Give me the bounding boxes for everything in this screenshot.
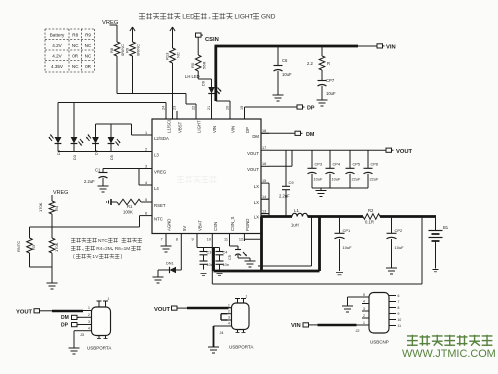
svg-text:10uF: 10uF bbox=[326, 91, 336, 96]
note: NTC option text bbox=[71, 238, 142, 260]
svg-text:USBPORTA: USBPORTA bbox=[87, 346, 111, 351]
svg-text:NTC: NTC bbox=[98, 238, 108, 244]
power arrow above R13 bbox=[170, 27, 175, 35]
LED D5 bbox=[108, 137, 120, 160]
svg-text:DP: DP bbox=[61, 323, 69, 329]
svg-text:CP7: CP7 bbox=[326, 78, 335, 83]
svg-text:L3: L3 bbox=[154, 152, 159, 157]
svg-text:CSIN: CSIN bbox=[205, 37, 219, 43]
svg-text:CSN: CSN bbox=[213, 222, 218, 231]
svg-text:19: 19 bbox=[240, 106, 244, 110]
ground below DN1 bbox=[153, 277, 164, 283]
ground below CP2 bbox=[386, 268, 397, 274]
svg-text:NC: NC bbox=[85, 43, 92, 48]
svg-text:R9: R9 bbox=[125, 47, 130, 53]
svg-text:10uF: 10uF bbox=[314, 177, 323, 182]
svg-text:L1: L1 bbox=[294, 208, 299, 213]
connector J2 USBCNP body bbox=[356, 293, 390, 345]
svg-text:6: 6 bbox=[398, 294, 400, 298]
svg-text:LIGHT: LIGHT bbox=[197, 120, 202, 133]
connector VOUT (right) bbox=[386, 148, 413, 155]
connector DP (bottom) bbox=[61, 323, 88, 329]
svg-text:D6: D6 bbox=[202, 81, 206, 86]
capacitor CP3 bbox=[308, 150, 323, 188]
capacitor C4 bbox=[216, 248, 229, 270]
pin 8 5V bbox=[176, 226, 187, 242]
resistor R8 bbox=[109, 25, 125, 56]
wire pin11 to C5 bbox=[230, 241, 239, 249]
svg-text:VIN: VIN bbox=[291, 323, 301, 329]
svg-text:4.35V: 4.35V bbox=[51, 64, 64, 69]
svg-text:2: 2 bbox=[228, 309, 230, 313]
svg-text:YOUT: YOUT bbox=[16, 310, 33, 316]
ground below pin7 bbox=[161, 241, 172, 252]
svg-text:9: 9 bbox=[192, 238, 194, 242]
svg-text:J3: J3 bbox=[80, 333, 84, 337]
svg-text:C6: C6 bbox=[282, 58, 288, 63]
ground below C1 bbox=[98, 186, 109, 192]
wire thick bus vertical at 319.5 bbox=[318, 217, 321, 272]
pin 14 LX bbox=[254, 195, 269, 205]
wire LED rail top (D4/D3 anodes to pin24) bbox=[58, 103, 166, 138]
svg-text:2.2: 2.2 bbox=[307, 61, 313, 66]
capacitor C5 bbox=[228, 250, 247, 261]
svg-text:C5: C5 bbox=[228, 255, 232, 260]
wire pin6 NTC node bbox=[30, 216, 145, 227]
svg-text:22uF: 22uF bbox=[352, 177, 361, 182]
svg-text:3: 3 bbox=[88, 320, 90, 324]
capacitor CP4 bbox=[326, 150, 341, 188]
pin 3 J2 bbox=[362, 307, 369, 311]
wire cap bottoms join bbox=[312, 187, 368, 189]
svg-text:2: 2 bbox=[363, 314, 365, 318]
svg-text:NC: NC bbox=[72, 43, 79, 48]
svg-text:R2: R2 bbox=[368, 208, 374, 213]
svg-text:DM: DM bbox=[306, 132, 315, 138]
ground below J3 bbox=[69, 348, 80, 354]
wire VOUT to J4 pin1 (thick) bbox=[179, 307, 232, 309]
svg-text:R4: R4 bbox=[54, 205, 59, 211]
svg-text:23: 23 bbox=[173, 106, 177, 110]
connector DM bbox=[295, 131, 315, 138]
resistor R13 bbox=[165, 35, 181, 63]
svg-text:C1: C1 bbox=[95, 168, 101, 173]
pin 22 LIGHT bbox=[192, 106, 202, 133]
wire R8 bottom to rail bbox=[116, 56, 118, 94]
svg-text:B1: B1 bbox=[443, 225, 449, 230]
svg-text:USBCNP: USBCNP bbox=[370, 340, 389, 345]
svg-text:D3: D3 bbox=[73, 155, 77, 160]
svg-text:2: 2 bbox=[145, 147, 147, 151]
svg-text:5V: 5V bbox=[182, 226, 187, 231]
watermark line 1 bbox=[407, 335, 492, 346]
pin 5 J2 bbox=[362, 293, 369, 297]
svg-text:DM: DM bbox=[252, 134, 259, 139]
svg-text:DP: DP bbox=[245, 127, 250, 133]
svg-text:VIN: VIN bbox=[231, 126, 236, 133]
wire J4 pins 2-3 loop bbox=[221, 314, 228, 320]
svg-text:DN1: DN1 bbox=[166, 262, 174, 266]
svg-text:R4=2M: R4=2M bbox=[96, 246, 112, 252]
watermark line 2 bbox=[402, 348, 496, 360]
svg-text:R3: R3 bbox=[31, 244, 36, 250]
pin 2 J2 bbox=[362, 314, 369, 318]
svg-text:1: 1 bbox=[363, 321, 365, 325]
wire pin9 to cap rail bbox=[197, 241, 220, 248]
svg-text:17: 17 bbox=[262, 146, 266, 150]
pin 10 CSN bbox=[207, 222, 218, 242]
net label VREG for R4 bbox=[53, 190, 68, 196]
svg-text:Battery: Battery bbox=[50, 33, 65, 38]
inductor L1 bbox=[291, 208, 308, 228]
wire thick bus vertical at 261.5 bbox=[260, 217, 263, 272]
connector DP bbox=[297, 105, 315, 112]
svg-text:21: 21 bbox=[207, 106, 211, 110]
wire pin18 to DM connector bbox=[261, 132, 295, 134]
pin 1 J2 bbox=[362, 321, 369, 325]
wire pin8 to DN1 bbox=[176, 241, 181, 270]
svg-text:22uF: 22uF bbox=[370, 177, 379, 182]
svg-text:J2: J2 bbox=[356, 329, 360, 333]
LED D6 bbox=[202, 81, 222, 94]
svg-text:AGND: AGND bbox=[167, 219, 172, 231]
svg-text:R9: R9 bbox=[85, 33, 91, 38]
svg-text:10uF: 10uF bbox=[332, 177, 341, 182]
svg-text:18: 18 bbox=[262, 129, 266, 133]
connector YOUT bbox=[16, 309, 42, 316]
connector J4 USBPORTA body bbox=[220, 303, 254, 350]
svg-text:16: 16 bbox=[262, 162, 266, 166]
svg-text:0R: 0R bbox=[85, 64, 92, 69]
svg-text:4.2V: 4.2V bbox=[52, 43, 62, 48]
pin 23 VBST bbox=[173, 106, 183, 133]
pin 10 J2 bbox=[389, 318, 401, 322]
svg-text:DP: DP bbox=[307, 106, 315, 112]
connector VOUT (bottom) bbox=[154, 306, 179, 313]
ground tick below CP1 bbox=[336, 273, 343, 275]
wire sense inner loop bbox=[258, 217, 312, 266]
table: battery option R8/R9 bbox=[45, 29, 95, 72]
power arrow above R9 bbox=[130, 27, 135, 35]
capacitor C6 bbox=[274, 46, 292, 95]
wire pin4 L4 jog bbox=[139, 169, 144, 186]
svg-text:WWW.JTMIC.COM: WWW.JTMIC.COM bbox=[402, 348, 496, 360]
wire J2 pin5 to ground bbox=[348, 297, 363, 306]
svg-text:12: 12 bbox=[239, 238, 243, 242]
capacitor CP5 bbox=[346, 150, 361, 188]
svg-text:LED: LED bbox=[182, 14, 195, 21]
wire thick top VIN rail bbox=[215, 45, 359, 48]
svg-text:10: 10 bbox=[398, 318, 402, 322]
wire J3 pin4 to ground bbox=[74, 331, 88, 348]
shield pins J3 top bbox=[97, 297, 110, 307]
pin 3 J4 bbox=[228, 316, 232, 320]
wire DN1 to ground bbox=[158, 270, 170, 277]
svg-text:11: 11 bbox=[224, 238, 228, 242]
wire CSIN net to pin20 bbox=[216, 101, 230, 119]
svg-text:10uF: 10uF bbox=[282, 72, 292, 77]
ground below C5 bbox=[245, 261, 256, 267]
svg-text:R: R bbox=[327, 61, 330, 66]
svg-text:10: 10 bbox=[207, 238, 211, 242]
ground below J2 pin5 bbox=[342, 306, 353, 312]
svg-text:8: 8 bbox=[176, 238, 178, 242]
thermistor RNTC bbox=[16, 227, 36, 267]
svg-text:3: 3 bbox=[363, 307, 365, 311]
diode DN1 bbox=[166, 262, 176, 274]
ground tick below battery bbox=[433, 270, 439, 272]
note: title text about LED/LIGHT option bbox=[139, 13, 276, 21]
svg-text:RNTC: RNTC bbox=[16, 241, 21, 252]
wire pin16 jog bbox=[269, 150, 292, 166]
svg-text:11: 11 bbox=[398, 324, 402, 328]
ground below R6 bbox=[47, 283, 58, 289]
svg-text:C9: C9 bbox=[289, 180, 295, 185]
svg-text:NC: NC bbox=[85, 54, 92, 59]
pin 2 J3 bbox=[88, 313, 92, 317]
svg-text:R5: R5 bbox=[190, 62, 195, 68]
svg-text:GND: GND bbox=[261, 14, 276, 21]
svg-text:RSET: RSET bbox=[154, 203, 166, 208]
svg-text:1uH: 1uH bbox=[291, 223, 299, 228]
ground below C6 bbox=[273, 95, 284, 101]
battery B1 bbox=[429, 217, 449, 269]
svg-text:10n: 10n bbox=[223, 263, 229, 267]
capacitor CP2 bbox=[387, 217, 405, 269]
ground tick below C4 bbox=[217, 274, 223, 276]
pin 9 VBAT bbox=[192, 220, 203, 242]
wire thick CSIN net vertical bbox=[214, 46, 217, 101]
wire thick bus to L1 bbox=[262, 215, 293, 218]
svg-text:13: 13 bbox=[262, 209, 266, 213]
svg-text:15: 15 bbox=[262, 179, 266, 183]
pin 11 CSN_S bbox=[224, 217, 235, 242]
svg-text:4: 4 bbox=[145, 181, 147, 185]
svg-text:5: 5 bbox=[363, 293, 365, 297]
pin 11 J2 bbox=[389, 324, 401, 328]
ground below J4 bbox=[208, 347, 219, 353]
svg-text:VREG: VREG bbox=[53, 190, 68, 196]
label LH LED bbox=[185, 74, 200, 79]
resistor R4 170K bbox=[38, 195, 59, 227]
ground tick below C3 bbox=[201, 274, 207, 276]
svg-text:4: 4 bbox=[228, 322, 230, 326]
resistor R6 170K bbox=[49, 227, 59, 267]
resistor R5 bbox=[190, 40, 207, 71]
wire R13 to pin23 bbox=[172, 63, 174, 119]
wire D6 to pin21 bbox=[211, 94, 213, 120]
svg-text:L2/SDA: L2/SDA bbox=[154, 136, 169, 141]
wire LX pins join bbox=[261, 183, 269, 216]
svg-text:1: 1 bbox=[88, 306, 90, 310]
pin 2 J4 bbox=[228, 309, 232, 313]
svg-text:2: 2 bbox=[88, 313, 90, 317]
svg-text:3: 3 bbox=[145, 164, 147, 168]
shield pins J4 bottom bbox=[236, 330, 246, 333]
capacitor C1 bbox=[84, 168, 108, 187]
svg-text:7: 7 bbox=[398, 300, 400, 304]
capacitor CP7 bbox=[318, 70, 336, 100]
LED D8 bbox=[87, 135, 99, 156]
svg-text:LX: LX bbox=[254, 200, 259, 205]
pin 4 L4 bbox=[144, 181, 159, 191]
pin 20 VIN bbox=[226, 106, 236, 133]
wire C5 to ground bbox=[238, 258, 250, 261]
svg-text:L1/SCL: L1/SCL bbox=[167, 118, 172, 133]
svg-text:R1: R1 bbox=[127, 204, 133, 209]
svg-text:6: 6 bbox=[145, 211, 147, 215]
pin 1 J4 bbox=[228, 303, 232, 307]
pin 13 LX bbox=[254, 209, 269, 219]
svg-text:USBPORTA: USBPORTA bbox=[229, 345, 253, 350]
svg-text:0R: 0R bbox=[72, 54, 79, 59]
pin 7 J2 bbox=[389, 300, 400, 304]
wire rail from R8/R9 to pin22 bbox=[117, 94, 196, 120]
svg-text:LX: LX bbox=[254, 214, 259, 219]
resistor 2.2R bbox=[307, 46, 330, 70]
wire R9 bottom to rail bbox=[132, 56, 134, 94]
pin 2 L3 bbox=[144, 147, 159, 157]
svg-text:10uF: 10uF bbox=[343, 245, 353, 250]
resistor R9 bbox=[125, 35, 141, 56]
svg-text:VOUT: VOUT bbox=[396, 149, 413, 155]
capacitor CP1 bbox=[335, 217, 353, 272]
svg-text:7: 7 bbox=[161, 238, 163, 242]
svg-text:C4: C4 bbox=[223, 251, 228, 255]
pin 5 RSET bbox=[144, 198, 166, 208]
svg-text:R13: R13 bbox=[165, 52, 170, 60]
ground below CP3/CP4 bbox=[316, 188, 327, 197]
wire thick bus vertical at 213.5 bbox=[212, 248, 215, 272]
svg-text:4: 4 bbox=[88, 327, 90, 331]
svg-text:LIGHT: LIGHT bbox=[234, 14, 253, 21]
pin 19 DP bbox=[240, 106, 250, 133]
svg-text:VIN: VIN bbox=[212, 126, 217, 133]
resistor R2 bbox=[363, 208, 380, 225]
wire R5 to D6 bbox=[198, 71, 211, 87]
svg-text:NC: NC bbox=[72, 64, 79, 69]
svg-text:1: 1 bbox=[145, 131, 147, 135]
svg-text:PGND: PGND bbox=[245, 219, 250, 231]
pin 24 L1/SCL bbox=[162, 106, 172, 133]
svg-text:4.2V: 4.2V bbox=[52, 54, 62, 59]
LED D3 bbox=[71, 137, 83, 160]
svg-text:VREG: VREG bbox=[154, 169, 167, 174]
svg-text:170K: 170K bbox=[38, 202, 43, 212]
wire YOUT to J3 pin1 (thick) bbox=[42, 310, 88, 313]
wire pin3 VREG to C1 bbox=[103, 168, 152, 170]
pin 16 VOUT bbox=[247, 162, 269, 172]
svg-text:C3: C3 bbox=[207, 251, 212, 255]
connector VIN (bottom) bbox=[291, 323, 311, 329]
svg-text:DM: DM bbox=[61, 315, 69, 321]
pin 9 J2 bbox=[389, 312, 400, 316]
pin 8 J2 bbox=[389, 306, 400, 310]
wire to VIN connector bbox=[358, 45, 377, 47]
wire join RNTC/R6 to ground bbox=[30, 267, 53, 283]
pin 7 AGND bbox=[161, 219, 172, 242]
svg-text:VBST: VBST bbox=[178, 121, 183, 133]
pin 17 VOUT bbox=[247, 146, 269, 156]
svg-text:LH LED: LH LED bbox=[185, 74, 200, 79]
ground left of R1 bbox=[107, 199, 118, 205]
wire LED cathode rail to pin2 bbox=[58, 144, 144, 152]
svg-text:56R: 56R bbox=[202, 62, 207, 69]
pin 6 J2 bbox=[389, 294, 400, 298]
LED D4 bbox=[49, 135, 61, 156]
svg-text:14: 14 bbox=[262, 195, 266, 199]
svg-text:CP5: CP5 bbox=[353, 162, 361, 167]
pin 3 J3 bbox=[88, 320, 92, 325]
connector DM (bottom) bbox=[61, 315, 88, 321]
svg-text:J4: J4 bbox=[220, 331, 224, 335]
connector J3 USBPORTA body bbox=[80, 307, 111, 351]
svg-text:1: 1 bbox=[246, 295, 248, 299]
connector VIN bbox=[377, 44, 396, 51]
wire VOUT rail bbox=[269, 149, 386, 151]
svg-text:D5: D5 bbox=[110, 155, 114, 160]
capacitor CP6 bbox=[364, 150, 379, 188]
svg-text:5: 5 bbox=[145, 198, 147, 202]
svg-text:CSN_S: CSN_S bbox=[230, 217, 235, 231]
svg-text:VIN: VIN bbox=[386, 45, 396, 51]
svg-text:NC: NC bbox=[176, 52, 181, 58]
svg-text:NTC: NTC bbox=[154, 216, 163, 221]
svg-text:1: 1 bbox=[228, 303, 230, 307]
wire J4 pin4 to ground bbox=[214, 326, 228, 347]
svg-text:LX: LX bbox=[254, 184, 259, 189]
svg-text:2.2uF: 2.2uF bbox=[84, 179, 95, 184]
resistor R1 100K bbox=[117, 199, 144, 214]
svg-text:10uF: 10uF bbox=[395, 245, 405, 250]
pin 1 L2/SDA bbox=[144, 131, 169, 141]
pin 6 NTC bbox=[144, 211, 163, 221]
svg-text:R6=1M: R6=1M bbox=[115, 246, 131, 252]
svg-text:0.1R: 0.1R bbox=[365, 220, 374, 225]
svg-text:3: 3 bbox=[228, 316, 230, 320]
svg-text:9: 9 bbox=[398, 312, 400, 316]
svg-text:2.2nF: 2.2nF bbox=[279, 194, 290, 199]
svg-text:CP3: CP3 bbox=[315, 162, 323, 167]
wire pin19 to DP connector bbox=[245, 107, 298, 119]
wire thick bus L1 to R2 bbox=[308, 215, 363, 218]
svg-text:L4: L4 bbox=[154, 186, 159, 191]
pin 12 PGND bbox=[239, 219, 250, 242]
shield pins J3 bottom bbox=[97, 336, 108, 339]
connector CSIN bbox=[196, 33, 219, 43]
net label VREG (top) bbox=[102, 20, 119, 26]
wire pin12 to PGND bus bbox=[244, 239, 261, 241]
wire pin10 CSN sense line bbox=[212, 217, 422, 285]
svg-text:100K: 100K bbox=[123, 210, 133, 215]
pin 3 VREG bbox=[144, 164, 167, 174]
svg-text:VOUT: VOUT bbox=[247, 167, 259, 172]
svg-text:CP4: CP4 bbox=[333, 162, 341, 167]
pin 1 J3 bbox=[88, 306, 92, 311]
svg-text:8: 8 bbox=[398, 306, 400, 310]
pin 15 LX bbox=[254, 179, 269, 189]
svg-text:170K: 170K bbox=[54, 242, 59, 252]
svg-text:1: 1 bbox=[108, 297, 110, 301]
svg-text:24: 24 bbox=[162, 106, 166, 110]
wire thick bus R2 to battery bbox=[380, 215, 436, 218]
svg-text:R8: R8 bbox=[72, 33, 78, 38]
wire thick bus horizontal bottom bbox=[214, 270, 320, 273]
op-amp U1 charger IC body bbox=[152, 119, 261, 234]
svg-text:4: 4 bbox=[363, 299, 365, 303]
pin 4 J2 bbox=[362, 299, 369, 303]
ground below CP7 bbox=[317, 100, 328, 106]
